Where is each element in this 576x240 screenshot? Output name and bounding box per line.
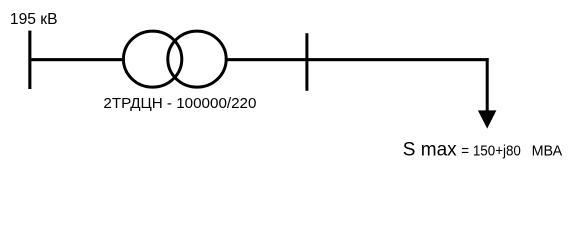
svg-text:2ТРДЦН - 100000/220: 2ТРДЦН - 100000/220 [103,95,256,112]
svg-text:S max: S max [403,140,457,161]
svg-text:= 150+j80: = 150+j80 [461,143,521,160]
svg-text:195 кВ: 195 кВ [10,11,58,28]
svg-text:МВА: МВА [532,143,563,160]
